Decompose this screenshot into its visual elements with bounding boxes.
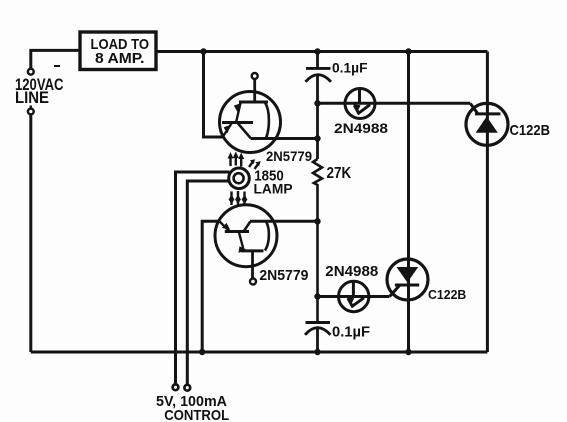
SCR U1 C122B top (466, 103, 508, 145)
svg-text:2N5779: 2N5779 (259, 267, 308, 284)
light arrows down toward Q2 (229, 191, 248, 206)
trigger diode D2 2N4988 (339, 281, 369, 311)
junction center rail at Q1 collector (314, 135, 320, 141)
label 120VAC LINE (15, 75, 64, 107)
resistor R1 27K (313, 159, 322, 322)
svg-text:LAMP: LAMP (254, 181, 293, 196)
wire: Q2 collector to center rail (250, 220, 318, 223)
svg-text:2N4988: 2N4988 (334, 120, 388, 136)
svg-text:CONTROL: CONTROL (164, 407, 229, 422)
light arrows up toward Q1 (228, 152, 261, 170)
wire: Q2 emitter to bottom rail (202, 221, 220, 352)
phototransistor Q1 2N5779 top (220, 73, 281, 153)
label 1850 LAMP (254, 169, 293, 197)
capacitor C2 0.1uF bottom: flat plate (306, 321, 331, 324)
capacitor C1 0.1uF top: lead (316, 52, 319, 69)
junction bottom rail at Q2 emitter (199, 349, 205, 355)
wire: D1 row from center rail to SCR1 gate (318, 102, 471, 105)
junction top rail at Q1 feed (200, 48, 206, 54)
junction center rail at D2 row (314, 293, 320, 299)
wire: bottom rail (31, 351, 488, 354)
wire: Q1 emitter feed from top rail (204, 52, 224, 138)
svg-text:C122B: C122B (510, 122, 551, 139)
load box LOAD TO 8 AMP (80, 32, 156, 70)
junction center rail at D1 row (314, 100, 320, 106)
svg-text:2N4988: 2N4988 (325, 264, 378, 280)
trigger diode D1 2N4988 (345, 89, 375, 119)
capacitor C1 flat plate (306, 67, 331, 70)
wire: right rail down through SCR1 (486, 52, 489, 353)
svg-text:0.1µF: 0.1µF (332, 324, 370, 341)
junction top rail at center rail (314, 48, 320, 54)
svg-text:27K: 27K (327, 165, 352, 182)
capacitor C2 bottom lead (316, 329, 319, 353)
junction center rail at Q2 collector (314, 218, 320, 224)
junction top rail at mid-right rail (405, 48, 411, 54)
junction bottom rail at mid-right rail (405, 349, 411, 355)
SCR U2 C122B bottom (387, 259, 428, 300)
wire: left lead of load box to line terminal corner (31, 50, 80, 69)
wire: control lead A to lamp (176, 172, 230, 385)
terminal control B (184, 385, 190, 391)
svg-text:LINE: LINE (15, 88, 49, 107)
lamp 1850 (229, 168, 250, 189)
capacitor C1 bottom lead / center rail to resistor (316, 76, 319, 160)
wire: top rail (156, 50, 487, 53)
svg-text:2N5779: 2N5779 (266, 149, 312, 164)
terminal: 120VAC line lower (28, 106, 34, 115)
wire: Q1 collector to center rail (251, 137, 318, 140)
svg-text:8 AMP.: 8 AMP. (95, 50, 145, 67)
capacitor C2 curved plate (305, 328, 331, 335)
stray dash mark (54, 65, 60, 67)
capacitor C1 curved plate (306, 75, 332, 82)
svg-text:C122B: C122B (428, 287, 466, 302)
wire: left rail down to bottom rail (29, 114, 32, 352)
phototransistor Q2 2N5779 bottom (215, 205, 277, 285)
wire: mid-right rail through SCR2 (407, 52, 410, 353)
svg-text:0.1µF: 0.1µF (332, 60, 368, 76)
terminal: 120VAC line upper (28, 69, 34, 75)
wire: control lead B to lamp (187, 181, 229, 385)
terminal control A (173, 384, 179, 390)
wire: D2 row from center rail to SCR2 gate (318, 295, 390, 298)
junction bottom rail at center rail (314, 349, 320, 355)
label 5V 100mA CONTROL (156, 393, 229, 422)
